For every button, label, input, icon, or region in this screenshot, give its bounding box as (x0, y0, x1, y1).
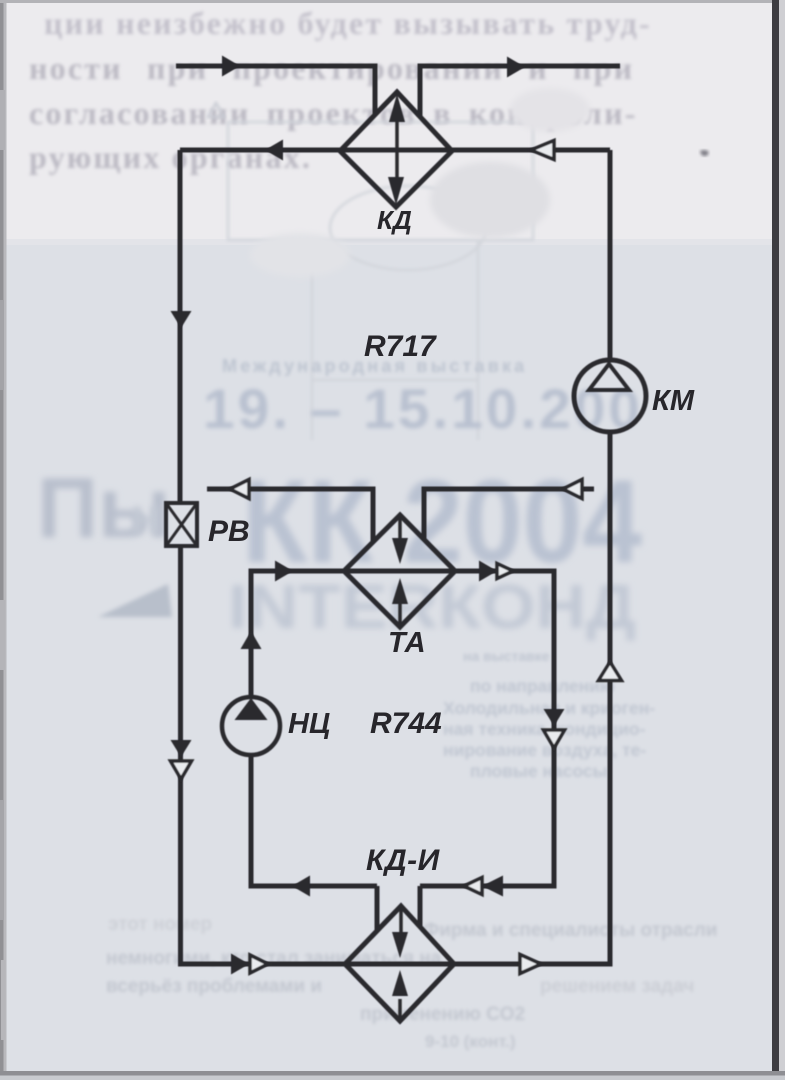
svg-text:R744: R744 (370, 707, 442, 740)
svg-text:решением задач: решением задач (540, 976, 694, 997)
svg-text:КД-И: КД-И (366, 844, 441, 877)
svg-text:рующих органах.: рующих органах. (29, 139, 312, 175)
svg-text:КД: КД (377, 205, 412, 235)
svg-text:НЦ: НЦ (288, 708, 330, 740)
svg-text:нирование воздуха, те-: нирование воздуха, те- (443, 740, 646, 760)
svg-text:этот номер: этот номер (108, 914, 212, 935)
svg-text:КМ: КМ (652, 385, 695, 417)
svg-text:пловые насосы: пловые насосы (470, 761, 608, 781)
svg-text:ции неизбежно будет вызывать т: ции неизбежно будет вызывать труд- (44, 5, 652, 41)
svg-text:РВ: РВ (208, 515, 250, 548)
svg-text:КК 2004: КК 2004 (242, 456, 642, 588)
svg-text:по направлению: по направлению (470, 676, 615, 696)
svg-text:всерьёз проблемами и: всерьёз проблемами и (106, 976, 322, 997)
svg-text:Фирма и специалисты отрасли: Фирма и специалисты отрасли (423, 920, 717, 941)
svg-text:R717: R717 (364, 330, 437, 363)
svg-text:INTERКОНД: INTERКОНД (228, 573, 636, 642)
svg-text:9-10 (конт.): 9-10 (конт.) (425, 1032, 516, 1051)
svg-text:на выставке: на выставке (463, 648, 550, 664)
svg-text:н: н (130, 488, 161, 546)
svg-text:ТА: ТА (388, 627, 426, 659)
